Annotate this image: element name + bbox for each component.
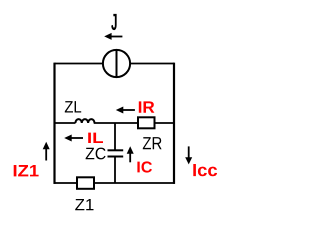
wire bottom rail right (94, 182, 175, 184)
capacitor ZC (108, 150, 124, 156)
resistor Z1 (77, 177, 94, 189)
resistor ZR (138, 117, 155, 128)
wire bottom rail left (54, 182, 77, 184)
label J (112, 14, 117, 30)
wire right rail (173, 63, 175, 184)
label IL (88, 133, 103, 143)
arrow for Icc (185, 146, 192, 164)
wire left rail (53, 63, 55, 184)
wire top rail left (55, 63, 104, 65)
wire middle rail right (155, 122, 175, 124)
wire top rail right (130, 63, 174, 65)
label IR (139, 101, 155, 112)
arrow for IZ1 (43, 142, 50, 161)
wire capacitor branch bottom (114, 157, 116, 183)
current source J (103, 50, 130, 77)
arrow for IL (64, 135, 83, 142)
wire middle rail center (94, 122, 138, 124)
wire middle rail left (55, 122, 76, 124)
label Z1 (75, 199, 93, 210)
label ZL (65, 101, 81, 112)
label IC (137, 161, 152, 172)
arrow for IR (116, 107, 135, 114)
label ZC (86, 148, 106, 160)
label Icc (193, 164, 217, 176)
arrow for IC (127, 146, 134, 162)
wire capacitor branch top (114, 123, 116, 150)
arrow for J (104, 33, 122, 40)
label ZR (143, 137, 162, 149)
label IZ1 (14, 165, 39, 176)
inductor ZL (75, 119, 94, 123)
